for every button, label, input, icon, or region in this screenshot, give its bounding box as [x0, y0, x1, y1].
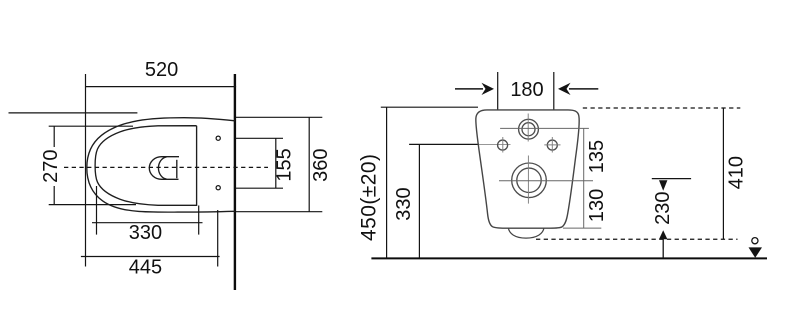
bowl outer outline — [87, 118, 235, 212]
dim 180 extension left — [497, 72, 499, 110]
dim 230 up arrow — [659, 230, 667, 239]
inlet horizontal line / dim 135 top tick — [500, 127, 589, 129]
dim 230 down arrow — [659, 180, 667, 191]
dim 230 top tick — [652, 178, 691, 180]
dim 360 line — [308, 117, 310, 211]
centerline dashed — [64, 166, 268, 168]
dim 410 line — [722, 108, 724, 239]
dim 450 top reference line — [381, 106, 478, 108]
datum triangle — [749, 247, 763, 257]
svg-text:155: 155 — [273, 148, 295, 181]
dim 445 right tick — [217, 210, 219, 267]
dim 450 line — [386, 107, 388, 258]
mounting hole lower — [216, 186, 220, 190]
flush outlet icon vertical — [176, 160, 178, 178]
dim 330 left line — [92, 222, 203, 224]
svg-text:230: 230 — [652, 192, 674, 225]
svg-text:330: 330 — [129, 222, 162, 244]
dim 155 extensions — [235, 137, 283, 139]
dim 180 left arrow — [455, 88, 483, 90]
dim 270 line — [53, 126, 55, 147]
svg-text:330: 330 — [393, 187, 415, 220]
dim 180 right arrow — [569, 88, 598, 90]
dim 445 line — [81, 256, 220, 258]
fixing hole crosshairs — [502, 137, 504, 153]
datum circle — [752, 238, 758, 244]
dim 270 ticks — [49, 125, 133, 127]
dim 330 right tick — [409, 143, 479, 145]
svg-text:135: 135 — [586, 140, 608, 173]
dim 360 extensions — [236, 116, 322, 118]
floor line — [371, 257, 767, 259]
svg-text:520: 520 — [145, 59, 178, 81]
svg-text:445: 445 — [129, 256, 162, 278]
flush outlet icon inner arc — [158, 157, 166, 179]
dim 180 extension right — [553, 72, 555, 110]
dim 130 bottom tick — [563, 227, 601, 229]
svg-text:450(±20): 450(±20) — [357, 154, 380, 242]
top dashed reference line — [583, 107, 741, 109]
outlet spigot bulge — [508, 228, 544, 239]
flush outlet icon outer arc — [149, 157, 179, 180]
bowl inner rim — [95, 126, 197, 206]
svg-text:410: 410 — [725, 156, 747, 189]
dim 155 line — [275, 138, 277, 188]
svg-text:130: 130 — [586, 189, 608, 222]
dim 520 line — [86, 86, 237, 88]
dim 330 right line — [418, 144, 420, 258]
dim 330 left ticks — [96, 186, 98, 235]
inlet circle — [519, 119, 539, 139]
ref line top-left — [9, 112, 138, 114]
dim 135-130 line — [583, 128, 585, 228]
fixing hole right — [547, 140, 557, 150]
toilet rear outline — [476, 110, 579, 228]
outlet horizontal line / dim 135-130 middle tick — [499, 180, 593, 182]
outlet circle — [512, 163, 547, 198]
svg-text:180: 180 — [510, 79, 543, 101]
mounting hole upper — [216, 136, 220, 140]
fixing hole left — [498, 140, 508, 150]
vertical centerline through circles — [527, 114, 529, 142]
dim 520 extension left — [85, 74, 87, 267]
bottom dashed reference line — [536, 238, 738, 240]
svg-text:270: 270 — [40, 150, 62, 183]
wall line — [234, 74, 236, 290]
svg-text:360: 360 — [310, 149, 332, 182]
